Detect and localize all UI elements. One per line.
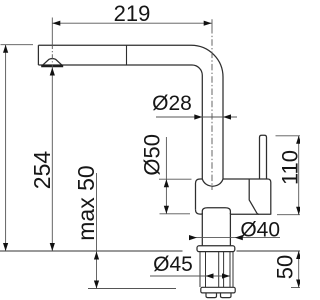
svg-text:219: 219 — [114, 1, 151, 26]
svg-text:Ø50: Ø50 — [139, 134, 164, 176]
219 — [52, 21, 60, 26]
aerator (spout tip) — [43, 59, 62, 66]
O45 dim — [150, 275, 230, 277]
O40 — [189, 235, 197, 240]
svg-text:Ø40: Ø40 — [240, 219, 280, 242]
110 — [296, 136, 301, 144]
max 50 — [94, 252, 99, 260]
219 dim line — [52, 22, 211, 24]
shank lines under deck — [200, 252, 233, 287]
O50 dim — [165, 137, 167, 214]
neck dome — [202, 208, 230, 214]
faucet spout outline — [38, 45, 223, 179]
O28 — [194, 114, 202, 119]
svg-text:max 50: max 50 — [73, 165, 99, 240]
50 — [296, 251, 301, 259]
body (cartridge housing) — [196, 179, 271, 215]
svg-text:Ø45: Ø45 — [153, 253, 193, 276]
base flange — [197, 246, 235, 252]
lever handle — [260, 135, 267, 179]
svg-text:110: 110 — [278, 150, 301, 185]
pipe centerline ext — [211, 19, 213, 27]
handle mount left edge + diagonal — [249, 179, 259, 214]
110 dim — [298, 136, 300, 215]
spout joint line — [126, 45, 128, 65]
left unlabeled dim — [5, 45, 7, 251]
neck sides — [202, 213, 230, 246]
svg-text:50: 50 — [273, 255, 298, 279]
mounting nut — [201, 287, 235, 293]
svg-text:Ø28: Ø28 — [152, 92, 192, 115]
O28 dim — [156, 116, 237, 118]
dimension texts — [29, 1, 303, 279]
254 dim — [51, 68, 53, 252]
254 — [50, 68, 55, 76]
left unlabeled — [3, 45, 8, 53]
O45 — [206, 273, 214, 278]
svg-text:254: 254 — [29, 151, 55, 190]
countertop / deck line — [0, 250, 300, 252]
O40 dim — [191, 237, 281, 239]
aerator centerline / ext up — [51, 18, 53, 45]
max 50 dim — [96, 173, 98, 289]
O50 — [164, 179, 169, 187]
hose ends — [206, 293, 217, 298]
50 dim — [298, 251, 300, 288]
